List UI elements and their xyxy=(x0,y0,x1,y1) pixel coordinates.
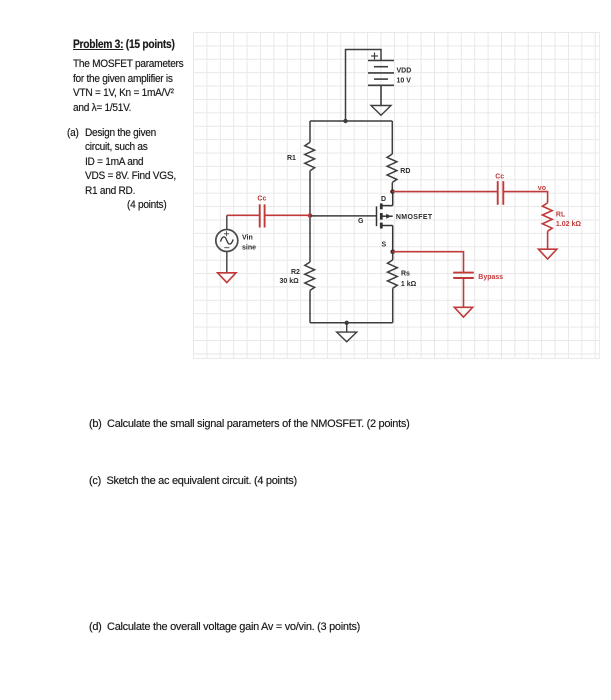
ground red below Vin xyxy=(218,273,236,283)
junction node D xyxy=(390,189,395,194)
wire: Vin bottom stub xyxy=(226,252,228,273)
resistor RD xyxy=(387,154,397,182)
source Vin sine xyxy=(216,230,238,252)
title Problem 3 xyxy=(73,39,175,51)
battery VDD xyxy=(368,61,394,106)
svg-text:R1: R1 xyxy=(287,155,296,162)
junction node G (red) xyxy=(308,213,313,218)
wire: RL to ground xyxy=(547,231,549,249)
source plus sign xyxy=(224,231,229,236)
svg-text:D: D xyxy=(381,196,386,203)
wire: Rs to bottom rail xyxy=(392,288,394,323)
svg-text:Cc: Cc xyxy=(495,174,504,181)
wire: RD to drain node xyxy=(391,182,393,191)
wire: red Cc to vo node and down xyxy=(503,192,547,203)
ground at bottom rail xyxy=(337,323,357,342)
resistor Rs xyxy=(388,260,398,288)
ground red below RL xyxy=(538,249,556,259)
wire: red source to bypass xyxy=(393,252,464,273)
svg-text:1.02 kΩ: 1.02 kΩ xyxy=(556,221,581,228)
wire: source to Rs xyxy=(392,252,394,260)
ground below VDD xyxy=(371,106,391,116)
source minus sign xyxy=(224,247,229,249)
transistor Q1 NMOSFET xyxy=(377,192,393,252)
svg-text:NMOSFET: NMOSFET xyxy=(396,214,433,221)
wire: rail to RD xyxy=(391,121,393,154)
wire: R1 to R2 (gate tap rail) xyxy=(309,171,311,262)
svg-text:G: G xyxy=(358,218,364,225)
svg-text:1 kΩ: 1 kΩ xyxy=(401,281,417,288)
svg-text:RD: RD xyxy=(400,168,410,175)
sine waveform inside source xyxy=(221,237,234,244)
junction top rail xyxy=(343,119,347,123)
capacitor Cc (input) xyxy=(260,204,265,227)
paragraph: MOSFET parameters xyxy=(73,58,183,70)
wire: red Cc to gate rail xyxy=(265,214,310,216)
resistor R1 xyxy=(305,142,315,170)
wire: red drain to output Cc xyxy=(393,191,498,193)
capacitor Cc (output) xyxy=(498,181,504,205)
svg-text:sine: sine xyxy=(242,245,256,252)
svg-text:Cc: Cc xyxy=(257,196,266,203)
wire: R2 to bottom rail xyxy=(309,290,311,322)
wire: red input to Cc xyxy=(227,214,260,216)
wire: bottom rail xyxy=(310,322,393,324)
svg-text:S: S xyxy=(382,242,387,249)
battery plus sign xyxy=(371,53,378,60)
capacitor Bypass xyxy=(453,273,474,278)
wire: Vin top stub xyxy=(226,215,228,229)
transistor body arrow xyxy=(386,214,391,219)
svg-text:Vin: Vin xyxy=(242,234,253,241)
svg-text:vo: vo xyxy=(538,185,546,192)
grid background of schematic capture area xyxy=(193,32,600,359)
wire: gate wire from bias rail to transistor xyxy=(310,215,377,217)
junction node S xyxy=(390,249,395,254)
item (b) xyxy=(89,418,409,430)
ground red below Bypass xyxy=(454,307,472,317)
junction bottom rail xyxy=(345,321,349,325)
svg-text:Bypass: Bypass xyxy=(478,274,503,281)
svg-text:RL: RL xyxy=(556,212,566,219)
item (c) xyxy=(89,475,297,487)
svg-text:10 V: 10 V xyxy=(397,77,412,84)
wire: top rail xyxy=(310,120,392,122)
wire: rail to R1 xyxy=(309,121,311,142)
svg-text:Rs: Rs xyxy=(401,271,410,278)
resistor RL xyxy=(542,203,552,231)
svg-text:R2: R2 xyxy=(291,269,300,276)
svg-text:30 kΩ: 30 kΩ xyxy=(280,278,300,285)
item (a) xyxy=(67,127,79,139)
item (d) xyxy=(89,621,360,633)
wire: battery plus to top rail xyxy=(346,50,382,122)
resistor R2 xyxy=(305,262,315,290)
wire: bypass to ground xyxy=(463,278,465,307)
svg-text:VDD: VDD xyxy=(397,67,412,74)
